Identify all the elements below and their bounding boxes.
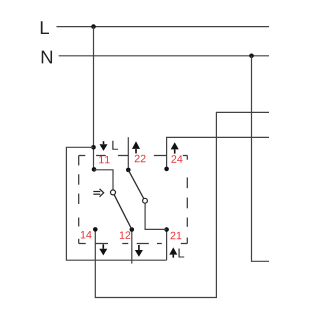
switch 1 contact circle [111,190,116,195]
switch 2 contact circle [143,198,148,203]
terminal 14 dot [93,227,98,232]
wire terminal 14 route to right edge [95,112,269,297]
arrow into terminal 21 (up) [169,247,177,257]
wire N drop to right edge [252,56,270,261]
node N label [42,51,52,64]
terminal 22 dot [126,168,131,173]
wire switch 2 contact to terminal 21 [145,203,167,229]
wire L drop to terminal 11 [93,27,95,170]
switch 1 blade to terminal 12 [114,195,132,230]
terminal 11 dot [92,167,97,172]
switch 2 blade from terminal 22 [128,170,143,199]
wire terminal 24 route to right edge [167,137,269,169]
terminal label 14 [81,231,92,238]
wire N line [59,55,269,57]
junction node above terminal 11 [91,145,96,150]
switch insert dashed enclosure [79,156,188,244]
label L at terminal 21 [178,249,184,258]
terminal label 12 [120,231,131,238]
wire terminal 22 stub [127,137,129,170]
junction dot on N line [249,54,254,59]
arrow out of terminal 12 (down) [135,245,143,257]
wire terminal 12 drop [131,230,133,264]
node L label [41,21,49,34]
terminal 24 dot [164,167,169,172]
terminal label 24 [171,155,182,162]
junction dot on L line [91,24,96,29]
wire terminal 21 riser [166,230,168,261]
wire L line [57,26,270,28]
actuator arrow at switch 1 [93,189,103,197]
arrow out of terminal 22 (up) [132,141,140,153]
arrow into terminal 11 (down) [100,141,108,151]
arrow out of terminal 24 (up) [171,142,179,153]
terminal label 22 [135,155,146,162]
label L at terminal 11 [112,141,118,150]
wire terminal 11 to switch 1 contact [94,170,113,190]
wire left detour from junction down to bottom rail [66,147,166,260]
terminal 21 dot [164,227,169,232]
terminal 12 dot [130,227,135,232]
terminal label 11 [99,156,110,163]
arrow out of terminal 14 (down) [99,244,107,255]
terminal label 21 [171,232,182,239]
